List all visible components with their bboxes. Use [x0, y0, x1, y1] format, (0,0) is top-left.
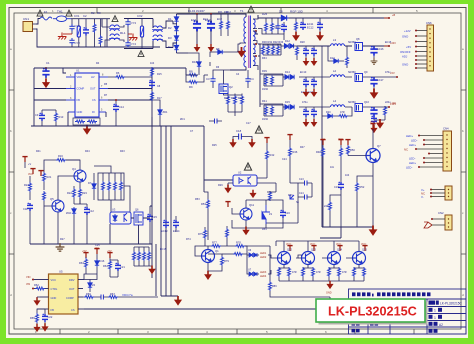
- wire sec bus left: [256, 31, 260, 107]
- resistor R10: [75, 120, 85, 123]
- resistor R79: [208, 254, 229, 271]
- svg-text:47R: 47R: [316, 271, 321, 274]
- common mode choke L1: [152, 26, 163, 41]
- svg-text:LED+: LED+: [409, 143, 416, 147]
- svg-text:VDC/7a: VDC/7a: [122, 293, 133, 297]
- svg-text:VCC: VCC: [370, 121, 375, 124]
- resistor R49: [340, 145, 343, 182]
- transformer T1: [240, 9, 255, 68]
- svg-text:R16: R16: [58, 154, 63, 158]
- pin 8 wire: [402, 63, 427, 67]
- wire AC top rail: [36, 19, 102, 25]
- resistor R75: [198, 227, 207, 246]
- frame zone ticks top: [97, 8, 373, 14]
- svg-text:D20: D20: [326, 111, 331, 114]
- svg-text:D2: D2: [168, 26, 172, 30]
- svg-text:GND: GND: [326, 292, 332, 295]
- warning triangle below L1: [138, 51, 144, 57]
- zener S1: [290, 195, 300, 204]
- capacitor EC17: [370, 77, 384, 90]
- svg-text:R28: R28: [300, 41, 305, 44]
- svg-text:U5: U5: [59, 270, 63, 274]
- capacitor C10: [274, 18, 281, 34]
- wire U1 bottom bus: [34, 125, 152, 127]
- svg-text:C2: C2: [83, 14, 87, 18]
- resistor R78: [227, 241, 247, 255]
- svg-text:C10: C10: [274, 25, 279, 29]
- svg-text:R2: R2: [91, 11, 95, 15]
- transistor Q7: [348, 129, 381, 227]
- resistor R88: [363, 267, 366, 281]
- svg-text:R56: R56: [288, 194, 293, 197]
- capacitor C5: [281, 22, 287, 34]
- ground C18 right: [248, 139, 255, 148]
- CN4 pin1 wire: [406, 134, 443, 138]
- title table frame: [349, 289, 467, 334]
- resistor R76: [226, 226, 229, 246]
- svg-text:R78: R78: [236, 241, 241, 245]
- capacitor CY3: [125, 19, 136, 27]
- zener ZD2: [66, 207, 76, 244]
- company name text: [352, 292, 431, 296]
- ground resistor array: [148, 266, 155, 275]
- svg-text:24R: 24R: [324, 205, 329, 208]
- junction C6: [45, 67, 47, 69]
- svg-text:R74: R74: [186, 238, 191, 241]
- svg-text:1N60: 1N60: [262, 88, 269, 91]
- dual diode D14: [285, 70, 294, 79]
- signal ground midleft: [56, 243, 65, 251]
- svg-text:SR360: SR360: [348, 101, 356, 104]
- svg-text:R39: R39: [262, 69, 267, 73]
- svg-text:RGP 10D: RGP 10D: [290, 10, 304, 14]
- pin 6 wire: [402, 55, 427, 59]
- ground Q1: [204, 271, 212, 280]
- svg-text:C12: C12: [89, 209, 94, 213]
- svg-text:1: 1: [434, 309, 436, 313]
- resistor R36b: [114, 181, 117, 191]
- wire reg mesh: [246, 200, 283, 228]
- resistor R73: [148, 247, 151, 266]
- svg-text:GND: GND: [402, 35, 408, 39]
- svg-text:47R: 47R: [340, 111, 345, 114]
- wire U1 right pins: [106, 68, 160, 126]
- zener D17: [88, 280, 96, 293]
- resistor R19: [231, 94, 237, 113]
- resistor R44: [374, 106, 387, 120]
- wire rowA out: [297, 45, 388, 47]
- svg-text:D13: D13: [330, 57, 335, 60]
- capacitor EC13a: [303, 46, 309, 59]
- svg-text:R75: R75: [198, 232, 203, 236]
- svg-text:R79: R79: [224, 259, 229, 263]
- svg-text:R42: R42: [270, 153, 275, 157]
- svg-text:CY2: CY2: [75, 41, 81, 45]
- label popup box: [316, 299, 425, 322]
- svg-text:COMP: COMP: [77, 87, 85, 91]
- wire rowB rails: [260, 74, 396, 86]
- svg-text:CN4: CN4: [443, 127, 449, 131]
- svg-text:EC12: EC12: [307, 26, 314, 30]
- ground EC23: [311, 119, 318, 127]
- capacitor C27: [298, 192, 312, 200]
- diode D13: [328, 46, 344, 63]
- svg-text:HV: HV: [91, 75, 95, 79]
- resistor R45: [224, 94, 230, 113]
- CN4 pin3 wire: [409, 143, 443, 147]
- transistor Q1: [195, 246, 219, 271]
- vcc R46: [287, 135, 292, 140]
- svg-text:R48: R48: [316, 150, 321, 154]
- svg-text:CY4: CY4: [131, 42, 137, 46]
- svg-text:47R: 47R: [342, 271, 347, 274]
- wire LED links: [268, 255, 349, 274]
- svg-text:VIN: VIN: [26, 283, 30, 286]
- svg-text:CN2: CN2: [438, 211, 444, 215]
- IC U5: [34, 270, 84, 315]
- resistor R66: [83, 292, 94, 299]
- resistor R41: [262, 99, 268, 116]
- resistor R50: [347, 145, 356, 156]
- capacitor C12: [74, 198, 94, 244]
- svg-text:GND: GND: [402, 63, 408, 67]
- svg-text:R26: R26: [262, 12, 268, 16]
- svg-text:C22: C22: [48, 315, 53, 319]
- junction dots T1 sec: [255, 30, 257, 57]
- svg-text:LED4: LED4: [260, 275, 267, 278]
- resistor R43: [271, 106, 274, 116]
- transistor Q5: [44, 190, 64, 244]
- wire opto out right: [267, 183, 298, 192]
- wire snubber: [188, 53, 210, 75]
- svg-text:EC15: EC15: [160, 248, 167, 251]
- svg-text:R21: R21: [47, 175, 52, 179]
- resistor R32: [272, 45, 275, 55]
- svg-text:L2: L2: [333, 69, 337, 73]
- svg-text:D4: D4: [168, 45, 172, 49]
- ground R65: [33, 324, 40, 332]
- svg-text:GND: GND: [51, 296, 57, 300]
- diode D4: [168, 44, 179, 52]
- svg-text:LED1: LED1: [260, 252, 267, 255]
- svg-text:SR360: SR360: [348, 41, 356, 44]
- svg-text:SR360: SR360: [348, 71, 356, 74]
- capacitor EC14a: [311, 46, 317, 59]
- junction EC1 top: [196, 13, 198, 15]
- svg-text:Q7: Q7: [377, 144, 381, 148]
- wire top rail U1: [34, 68, 186, 126]
- resistor R87: [353, 267, 356, 281]
- svg-text:Q14: Q14: [337, 248, 342, 252]
- vcc D16: [94, 249, 99, 254]
- svg-text:R52: R52: [360, 185, 365, 189]
- capacitor CY2: [69, 38, 80, 47]
- svg-text:R89: R89: [272, 285, 277, 288]
- svg-text:R9: R9: [189, 85, 193, 89]
- svg-text:DRV: DRV: [69, 278, 75, 282]
- resistor R42: [266, 143, 275, 178]
- svg-text:LK-PL320215C: LK-PL320215C: [440, 302, 462, 306]
- X-capacitor CX1: [74, 14, 80, 47]
- svg-text:CX1: CX1: [74, 14, 80, 18]
- resistor R28: [295, 18, 298, 33]
- svg-text:LED3: LED3: [260, 271, 267, 274]
- ground EC21: [311, 89, 318, 97]
- capacitor C6: [42, 61, 50, 80]
- resistor R39: [262, 69, 268, 86]
- sheet cell 1: [429, 308, 443, 313]
- wire rightmid bottom: [320, 227, 373, 238]
- capacitor EC13: [161, 220, 169, 233]
- resistor R53: [201, 192, 210, 240]
- svg-text:D7: D7: [88, 181, 92, 185]
- vertical bus x322: [321, 107, 323, 227]
- ground C18 left: [229, 139, 236, 148]
- wire U1 left pins: [34, 89, 68, 127]
- wire AC bottom rail: [36, 19, 160, 47]
- CN4 pin2 wire: [411, 139, 443, 143]
- svg-text:CX2: CX2: [137, 14, 143, 18]
- svg-text:R64: R64: [103, 264, 108, 268]
- svg-text:ZD1: ZD1: [163, 110, 168, 114]
- wire T1 sec pins right: [253, 15, 258, 70]
- svg-text:R25: R25: [212, 144, 217, 147]
- svg-text:ZD1: ZD1: [180, 118, 185, 121]
- svg-text:R41: R41: [262, 99, 267, 103]
- optocoupler U3: [110, 208, 131, 225]
- svg-text:47R: 47R: [292, 271, 297, 274]
- vcc R63: [83, 253, 88, 258]
- connector CN1: [23, 17, 36, 32]
- sheet cell 2: [429, 315, 443, 320]
- svg-text:RI: RI: [92, 110, 95, 114]
- svg-text:D15: D15: [285, 100, 290, 104]
- ground reg: [242, 227, 249, 236]
- svg-text:EC17: EC17: [377, 78, 384, 82]
- svg-text:TH1: TH1: [57, 10, 63, 14]
- svg-text:R47: R47: [300, 146, 305, 149]
- model no cell: [429, 301, 463, 306]
- approve cell 2: [352, 329, 360, 333]
- svg-text:10n: 10n: [330, 166, 335, 169]
- svg-text:C13: C13: [299, 178, 304, 181]
- svg-text:+12V: +12V: [404, 29, 411, 33]
- wire U5 pin8 long: [84, 297, 330, 309]
- terminal dot +B: [384, 17, 390, 19]
- svg-text:C19: C19: [334, 185, 339, 189]
- svg-text:C15: C15: [152, 215, 157, 219]
- size cell: [429, 322, 444, 327]
- CN4 pin6 wire: [409, 157, 443, 161]
- CN4 pin5 wire: [428, 153, 443, 155]
- label D18: [260, 252, 267, 259]
- capacitor C2: [83, 14, 89, 47]
- capacitor C17: [209, 119, 222, 124]
- vcc Q12: [287, 246, 292, 251]
- svg-text:C24: C24: [282, 158, 287, 161]
- svg-text:Q15: Q15: [362, 248, 367, 252]
- resistor R52: [356, 176, 374, 227]
- svg-text:C14: C14: [119, 105, 124, 109]
- wire top rail stage2: [124, 19, 153, 49]
- capacitor EC14: [173, 216, 180, 233]
- component value labels: [28, 10, 392, 251]
- diode D7: [88, 173, 96, 200]
- svg-text:R6: R6: [116, 71, 120, 75]
- capacitor C19: [334, 182, 344, 227]
- ground arrow rowC: [376, 119, 384, 129]
- svg-text:ADJ: ADJ: [402, 55, 408, 59]
- svg-text:EC16: EC16: [377, 47, 384, 51]
- diode D2: [168, 25, 179, 33]
- capacitor EC20: [301, 77, 315, 94]
- svg-text:LED-: LED-: [409, 157, 415, 161]
- svg-text:D3: D3: [168, 36, 172, 40]
- terminal dot rowB: [390, 71, 398, 78]
- svg-text:VCC: VCC: [310, 243, 315, 246]
- capacitor EC2: [205, 14, 215, 44]
- capacitor C26: [298, 178, 312, 186]
- optocoupler U2: [228, 171, 276, 187]
- svg-text:C3: C3: [206, 77, 210, 81]
- X-capacitor CX2: [137, 14, 144, 49]
- resistor R64: [103, 258, 112, 277]
- ground arrow rowB: [370, 89, 379, 99]
- svg-text:V-: V-: [421, 195, 424, 199]
- capacitor EC16: [370, 46, 384, 59]
- resistor R54: [269, 191, 272, 201]
- ground rightmid: [369, 226, 378, 236]
- pin 1 wire: [404, 29, 427, 33]
- resistor R3: [97, 11, 102, 47]
- svg-text:FB: FB: [51, 308, 55, 312]
- svg-text:D12: D12: [285, 39, 290, 43]
- capacitor EC23: [311, 107, 317, 120]
- wire U5 right pin1: [84, 274, 97, 280]
- capacitor C8: [149, 80, 155, 88]
- chassis ground CY mid: [58, 31, 72, 40]
- svg-text:R65: R65: [30, 316, 35, 320]
- vcc Q13: [311, 246, 316, 251]
- svg-text:D8: D8: [279, 10, 283, 14]
- ground EC22: [303, 119, 310, 127]
- svg-text:R50: R50: [350, 148, 355, 152]
- svg-text:R27: R27: [60, 238, 65, 241]
- svg-text:D1-D4 1N4007: D1-D4 1N4007: [188, 10, 205, 13]
- svg-text:VCC: VCC: [286, 243, 291, 246]
- resistor R2: [91, 11, 96, 40]
- warning triangle opto: [244, 163, 251, 170]
- svg-text:104: 104: [345, 174, 350, 177]
- resistor R14: [108, 71, 152, 79]
- wire T1 primary tap: [240, 43, 246, 44]
- svg-text:R8: R8: [189, 70, 193, 74]
- inductor L3: [331, 38, 345, 46]
- svg-text:LED-: LED-: [406, 166, 412, 170]
- svg-text:R66: R66: [86, 292, 91, 296]
- svg-text:EC14: EC14: [173, 229, 180, 233]
- resistor R67: [108, 292, 158, 299]
- resistor R80: [222, 253, 243, 256]
- svg-text:R46: R46: [293, 150, 298, 154]
- date cell: [370, 322, 378, 326]
- svg-text:U2: U2: [238, 171, 242, 175]
- capacitor EC1: [191, 14, 201, 44]
- wire bus to opto: [152, 117, 233, 192]
- vcc marks row: [320, 124, 375, 145]
- vcc Q15: [362, 246, 367, 251]
- wire botrow bottom rail: [279, 281, 364, 283]
- svg-text:VCC: VCC: [338, 138, 343, 141]
- svg-text:CS: CS: [71, 308, 75, 312]
- resistor R82: [288, 267, 297, 281]
- ground arrow T1 tap: [237, 47, 246, 57]
- wire to choke RL1: [95, 19, 111, 47]
- svg-text:R11: R11: [224, 11, 229, 14]
- svg-text:R77: R77: [212, 241, 217, 245]
- capacitor EC22: [303, 107, 309, 120]
- svg-text:Q6: Q6: [135, 208, 139, 212]
- svg-text:Q4: Q4: [72, 167, 76, 171]
- resistor R27: [271, 18, 274, 34]
- svg-text:A2: A2: [439, 323, 443, 327]
- wire Q2 drain: [186, 70, 230, 84]
- svg-text:1: 1: [434, 316, 436, 320]
- svg-text:EC2: EC2: [217, 18, 222, 21]
- terminal dot U5 pin1: [26, 275, 34, 281]
- resistor R17: [151, 91, 154, 101]
- svg-text:+5V: +5V: [107, 250, 112, 253]
- capacitor C11: [23, 203, 33, 244]
- vcc R42: [264, 138, 269, 143]
- svg-text:C1: C1: [46, 61, 50, 65]
- CN5 pin wires: [421, 188, 445, 199]
- svg-text:VCC: VCC: [51, 278, 57, 282]
- transistor Q14: [324, 248, 342, 269]
- warning triangle C18: [255, 126, 262, 133]
- svg-text:C17: C17: [246, 122, 251, 125]
- svg-text:C11: C11: [23, 207, 28, 211]
- svg-text:C4: C4: [250, 77, 254, 81]
- IC U1: [66, 69, 108, 118]
- resistor R55: [324, 195, 341, 227]
- svg-text:EC1: EC1: [203, 18, 208, 21]
- svg-text:L3: L3: [333, 38, 337, 42]
- resistor R8: [186, 70, 198, 77]
- svg-text:R45: R45: [224, 96, 230, 100]
- svg-text:R29: R29: [218, 184, 223, 187]
- dual diode D19: [247, 255, 259, 276]
- svg-text:GND: GND: [77, 110, 83, 114]
- ground above Q11: [249, 190, 256, 198]
- svg-text:D6: D6: [216, 47, 220, 51]
- svg-text:R44: R44: [85, 150, 90, 153]
- svg-text:VIN: VIN: [26, 275, 30, 279]
- junction EC2 top: [210, 13, 212, 15]
- resistor R16: [44, 154, 80, 167]
- pin 3 wire: [415, 41, 427, 43]
- drawn cell: [429, 329, 438, 333]
- svg-text:+5V: +5V: [94, 247, 99, 250]
- pin 4 wire: [406, 45, 427, 49]
- resistor R13: [42, 110, 64, 126]
- terminal dot rowA: [384, 45, 390, 47]
- svg-text:CTRL: CTRL: [51, 287, 58, 291]
- svg-text:C14: C14: [299, 192, 304, 195]
- svg-text:U1: U1: [76, 69, 80, 73]
- resistor R24: [24, 176, 32, 200]
- svg-text:L4: L4: [333, 99, 337, 103]
